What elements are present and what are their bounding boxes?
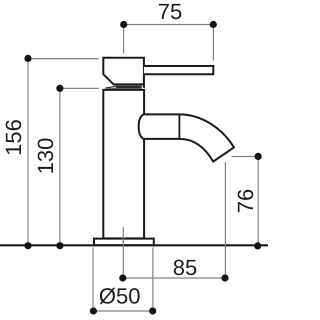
dim 156 dot bottom (24, 242, 31, 249)
base flange (94, 239, 154, 246)
dim 85 extension centerline (122, 227, 124, 274)
svg-text:130: 130 (33, 138, 58, 175)
dim 75 dot left (120, 21, 127, 28)
dim 130 dot top (56, 85, 63, 92)
dim diameter 50 extension left (92, 248, 94, 308)
dim 85 line (123, 277, 225, 279)
svg-text:Ø50: Ø50 (99, 284, 141, 309)
mounting baseline (0, 244, 268, 246)
dim 130 dot bottom (56, 242, 63, 249)
dim 85 extension right (224, 162, 226, 274)
spout fill (145, 114, 234, 161)
svg-text:156: 156 (1, 119, 26, 156)
dim 76 line (257, 156, 259, 245)
dim 76 extension (232, 156, 255, 158)
dim 130 extension (64, 87, 100, 89)
spout outline (144, 114, 234, 161)
lever handle (144, 66, 213, 74)
dim 130 line (59, 88, 61, 245)
dim diameter 50 dot right (149, 307, 156, 314)
dim 75 extension left (123, 28, 125, 53)
collar under head (117, 86, 142, 88)
dim diameter 50 extension right (152, 248, 154, 308)
dim 76 dot bottom (254, 242, 261, 249)
cartridge head (103, 58, 144, 85)
dim 85 dot left (119, 274, 126, 281)
dim 156 line (27, 58, 29, 245)
dim 156 extension (32, 58, 99, 60)
spout joint line (178, 114, 180, 138)
dim 85 dot right (221, 274, 228, 281)
dim 75 line (124, 24, 214, 26)
tap body (with spout socket notch on right edge) (103, 90, 144, 239)
dim 75 extension right (212, 28, 214, 60)
dim diameter 50 dot left (90, 307, 97, 314)
dim 156 dot top (24, 55, 31, 62)
dim 75 dot right (210, 21, 217, 28)
svg-text:85: 85 (173, 255, 197, 280)
svg-text:76: 76 (233, 189, 258, 213)
dim 76 dot top (255, 153, 262, 160)
dim diameter 50 line (93, 310, 152, 312)
svg-text:75: 75 (158, 0, 182, 24)
